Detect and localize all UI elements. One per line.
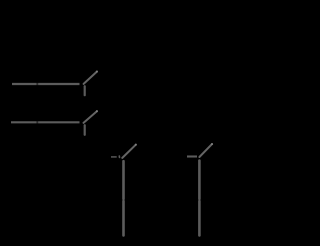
transistor Q2 gate wire (11, 121, 80, 123)
transistor Q4 drain wire upper segment (198, 161, 201, 199)
node between Q3 drain segments (122, 201, 125, 235)
transistor Q3 lever tip (135, 144, 137, 146)
node between Q4 drain segments (198, 201, 201, 235)
transistor Q4 switch lever (199, 144, 212, 157)
transistor Q2 source stub (84, 125, 86, 135)
transistor Q3 gate wire dot (118, 156, 120, 157)
transistor Q3 switch lever (122, 145, 136, 158)
transistor Q4 lever tip (211, 143, 213, 145)
transistor Q2 lever tip (96, 110, 98, 112)
transistor Q4 gate wire (187, 155, 197, 157)
transistor Q3 gate wire dash (111, 156, 117, 158)
transistor Q3 drain wire upper segment (122, 161, 125, 199)
transistor Q1 source stub (84, 86, 86, 95)
transistor Q1 gate wire (12, 83, 80, 85)
transistor Q1 switch lever (84, 72, 97, 84)
transistor Q2 switch lever (84, 111, 97, 123)
transistor Q1 lever tip (96, 71, 98, 73)
